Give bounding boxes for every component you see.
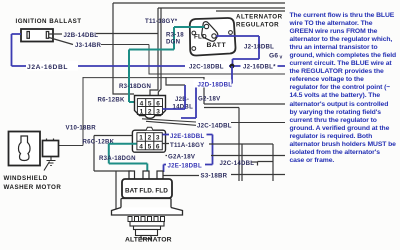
wire V10-18BR vertical and top run bbox=[59, 77, 205, 146]
wire G2A-18V from C2 housing bbox=[166, 144, 286, 181]
explanatory note text bbox=[290, 12, 400, 165]
wire T11 vertical to connector cell 5 bbox=[150, 8, 158, 98]
wire blue J2D-18DBL bbox=[181, 66, 232, 118]
connector C1 housing bbox=[135, 96, 166, 119]
wire J2B hook to connector cell 3 bbox=[166, 77, 185, 85]
svg-text:ALTERNATOR: ALTERNATOR bbox=[236, 14, 283, 21]
svg-text:2: 2 bbox=[148, 135, 152, 142]
ground symbol bbox=[44, 157, 56, 171]
ignition ballast left pin bbox=[27, 32, 29, 39]
regulator mounting hole left bbox=[192, 31, 196, 35]
junction dot bbox=[230, 64, 235, 69]
alternator band 1 bbox=[130, 222, 164, 227]
svg-text:R3-18DGN: R3-18DGN bbox=[119, 83, 151, 90]
svg-text:BATT: BATT bbox=[207, 42, 227, 49]
wire top rail 1 bbox=[113, 2, 285, 4]
svg-text:4: 4 bbox=[140, 101, 144, 108]
svg-text:J2-18DBL: J2-18DBL bbox=[244, 44, 274, 51]
svg-text:J2C-14DBL: J2C-14DBL bbox=[197, 123, 232, 130]
svg-text:BAT FLD. FLD: BAT FLD. FLD bbox=[125, 188, 168, 195]
svg-text:J2C-18DBL: J2C-18DBL bbox=[189, 64, 224, 71]
svg-text:DGN: DGN bbox=[166, 39, 180, 46]
wire blue J2E-18DBL from cell 3 bbox=[163, 135, 213, 173]
svg-text:J2A-16DBL: J2A-16DBL bbox=[27, 64, 68, 71]
alternator terminal pin FLD middle bbox=[143, 171, 149, 179]
regulator FLD terminal bbox=[204, 24, 208, 28]
svg-text:5: 5 bbox=[148, 143, 152, 150]
svg-text:T11A-18GY: T11A-18GY bbox=[170, 142, 204, 149]
label J2C-18DBL on blue run bbox=[185, 62, 229, 71]
wire top rail 1 vertical drop bbox=[113, 3, 134, 94]
wire J3-14BR diagonal from ballast bbox=[49, 38, 73, 45]
washer motor inner keyhole bbox=[19, 136, 31, 161]
wire dark from C2 left to alternator BAT bbox=[94, 136, 132, 210]
wire rail 3 vertical to connector cell 6 bbox=[158, 8, 161, 98]
regulator inner terminal plate bbox=[202, 22, 218, 42]
alternator top cap bbox=[122, 179, 172, 198]
wire J3-14BR run to right edge bbox=[101, 45, 285, 75]
svg-text:IGNITION BALLAST: IGNITION BALLAST bbox=[16, 18, 82, 25]
windshield washer motor body bbox=[9, 132, 41, 166]
wire J2B-14DBL from ballast bbox=[49, 33, 158, 36]
wire stub right of G2 bbox=[204, 108, 239, 182]
wire top rail 3 bbox=[216, 10, 285, 12]
connector C2 cell grid bbox=[137, 133, 162, 150]
label J2E-18DBL (lower) bbox=[166, 161, 205, 169]
ignition ballast right pin bbox=[46, 32, 48, 39]
connector C2 housing bbox=[132, 130, 165, 152]
svg-text:1: 1 bbox=[140, 108, 144, 115]
connector C2 top tab bbox=[146, 127, 153, 130]
wire T11A-18GY from cell 6 bbox=[162, 144, 273, 182]
svg-text:FLD: FLD bbox=[194, 34, 207, 41]
alternator terminal pin BAT bbox=[129, 171, 135, 179]
svg-text:G2-18V: G2-18V bbox=[198, 96, 221, 103]
wire teal R3A-18DGN to alternator FLD bbox=[109, 144, 148, 172]
svg-text:J2E-18DBL: J2E-18DBL bbox=[170, 133, 204, 140]
svg-text:3: 3 bbox=[156, 135, 160, 142]
regulator mounting hole bottom-left bbox=[192, 47, 196, 51]
svg-text:WINDSHIELD: WINDSHIELD bbox=[4, 175, 48, 182]
label J2-16DBL* bbox=[241, 62, 278, 71]
label J2A-16DBL bbox=[26, 61, 78, 71]
svg-text:5: 5 bbox=[148, 101, 152, 108]
svg-text:R3A-18DGN: R3A-18DGN bbox=[99, 155, 136, 162]
svg-text:V10-18BR: V10-18BR bbox=[66, 125, 97, 132]
wire J2C-14DBL from connector C1 bottom bbox=[142, 119, 285, 126]
regulator body U1 bbox=[190, 18, 236, 56]
washer motor connector square bbox=[43, 141, 59, 157]
washer connector pins bbox=[47, 139, 54, 141]
alternator band 2 bbox=[134, 226, 161, 230]
svg-text:R3-18: R3-18 bbox=[166, 32, 184, 39]
svg-text:WASHER MOTOR: WASHER MOTOR bbox=[4, 184, 62, 191]
svg-text:6: 6 bbox=[156, 101, 160, 108]
svg-text:J2-16DBL*: J2-16DBL* bbox=[243, 64, 276, 71]
wire S3-18BR from alternator right pin bbox=[163, 175, 285, 176]
ignition ballast body bbox=[21, 29, 53, 42]
alternator terminal pin FLD right bbox=[157, 171, 163, 179]
svg-text:G6: G6 bbox=[269, 53, 278, 60]
svg-text:6: 6 bbox=[156, 143, 160, 150]
alternator shaft nut bbox=[141, 236, 151, 240]
wire blue J2A-16DBL main run bbox=[12, 34, 286, 66]
svg-text:REGULATOR: REGULATOR bbox=[236, 22, 279, 29]
svg-text:1: 1 bbox=[139, 135, 143, 142]
svg-text:2: 2 bbox=[148, 108, 152, 115]
wire teal R3-18DGN from FLD bbox=[129, 27, 204, 102]
svg-text:G2A-18V: G2A-18V bbox=[168, 154, 196, 161]
connector C1 cell grid bbox=[137, 99, 162, 115]
regulator BATT terminal bbox=[212, 34, 216, 38]
svg-text:R6-12BK: R6-12BK bbox=[98, 97, 125, 104]
label J2D-18DBL bbox=[194, 80, 232, 88]
wire blue from BATT terminal bbox=[216, 36, 259, 66]
svg-text:J2C-14DBL: J2C-14DBL bbox=[220, 160, 255, 167]
svg-text:J2B-: J2B- bbox=[175, 96, 189, 103]
svg-text:J2B-14DBL: J2B-14DBL bbox=[64, 32, 99, 39]
alternator pulley bbox=[136, 230, 158, 236]
svg-text:ALTERNATOR: ALTERNATOR bbox=[125, 237, 172, 244]
svg-text:T11-18GY*: T11-18GY* bbox=[145, 18, 178, 25]
regulator mounting hole right bbox=[229, 31, 233, 35]
svg-text:3: 3 bbox=[156, 108, 160, 115]
svg-text:S3-18BR: S3-18BR bbox=[201, 173, 228, 180]
alternator body bbox=[121, 199, 171, 214]
wire blue J2B tail into cell 3 bbox=[163, 85, 186, 109]
svg-text:J3-14BR: J3-14BR bbox=[75, 42, 101, 49]
wire top rail 2 (T11-18GY) bbox=[158, 7, 285, 9]
wire G2-18V run bbox=[204, 77, 285, 104]
svg-text:J2D-18DBL: J2D-18DBL bbox=[198, 82, 233, 89]
svg-text:v: v bbox=[280, 55, 283, 61]
alternator left ear bbox=[112, 208, 183, 216]
svg-text:J2E-18DBL: J2E-18DBL bbox=[168, 163, 202, 170]
svg-text:4: 4 bbox=[139, 143, 143, 150]
alternator vents bbox=[128, 217, 165, 222]
